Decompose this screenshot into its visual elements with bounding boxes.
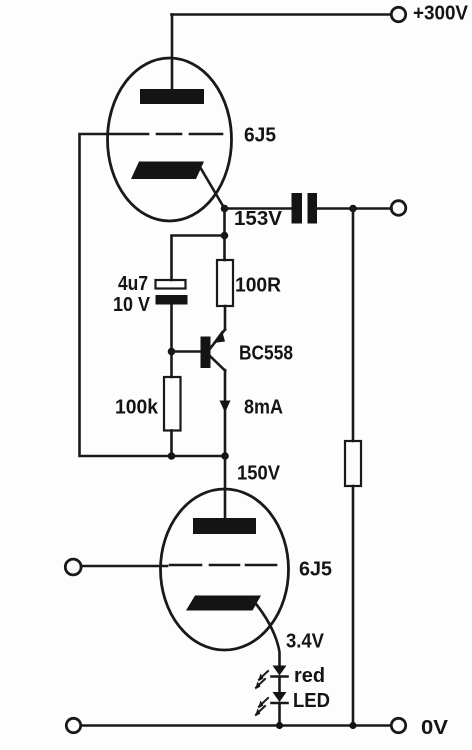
V2 grid dashed line [170,564,276,567]
svg-text:3.4V: 3.4V [286,631,325,653]
svg-text:100k: 100k [115,397,159,419]
wire LED2 to 0V rail [278,703,281,726]
svg-text:100R: 100R [235,275,282,297]
node cap tap junction [221,232,229,240]
node 153V junction [221,205,229,213]
V1 anode plate [140,89,204,104]
capacitor 4u7 plate bottom [156,295,188,305]
wire 153V node down to 100R [223,209,226,261]
node 150V right junction [221,452,229,460]
arrow 8mA current [220,401,231,413]
node base junction [168,348,176,356]
wire anode V1 to rail [171,15,174,91]
tube V2 envelope [161,489,289,650]
wire cap to output [317,207,392,210]
node bleed to rail junction [349,722,356,729]
V1 grid dashed line [115,133,222,136]
wire LED1 to LED2 [278,677,281,693]
terminal output [391,201,406,216]
wire base [172,350,202,353]
wire collector to 150V node [224,370,227,456]
svg-text:150V: 150V [237,463,281,485]
wire node to coupling cap [225,207,293,210]
svg-text:4u7: 4u7 [118,273,148,295]
wire 0V rail [81,724,391,727]
wire top supply rail [172,13,392,16]
wire 100k to 150V rail [170,431,173,457]
wire grid feedback (V1 grid to 150V rail) [80,134,172,456]
terminal +300V [391,7,405,21]
svg-text:6J5: 6J5 [299,559,332,581]
transistor Q1 emitter lead with arrow [211,330,226,349]
wire bleed resistor to 0V rail [352,486,355,726]
node LED to rail junction [276,722,283,729]
resistor bleed (right) [345,441,361,486]
wire V2 cathode lead [252,599,280,665]
resistor 100R [217,260,233,306]
V1 cathode plate [131,162,204,180]
svg-text:red: red [294,665,325,687]
node 150V left junction [168,452,176,460]
wire 4u7 to 100k [170,305,173,378]
terminal input [65,559,81,575]
terminal input ground [66,718,80,732]
V2 cathode plate [186,596,261,611]
V2 anode plate [193,518,256,534]
resistor 100k [164,377,181,431]
svg-text:BC558: BC558 [239,343,293,365]
wire input to grid [81,565,167,568]
capacitor 4u7 plate top [156,280,186,289]
svg-text:153V: 153V [234,208,283,230]
wire 150V node to V2 anode [224,456,227,519]
wire 150V rail [172,455,226,458]
wire tap to 4u7 branch [172,236,225,281]
svg-text:8mA: 8mA [244,397,283,419]
svg-text:10 V: 10 V [113,294,151,316]
diode LED2 [255,692,288,717]
tube V1 envelope [108,58,232,221]
wire output node down to bleed resistor [352,209,355,442]
diode LED1 [255,666,288,690]
transistor Q1 BC558 base bar [201,337,211,369]
svg-text:LED: LED [293,690,330,712]
capacitor C out (coupling) [292,193,318,224]
node output junction [349,205,357,213]
svg-text:6J5: 6J5 [244,125,276,147]
transistor Q1 collector lead [211,357,226,371]
wire 100R to emitter [224,306,227,330]
svg-text:0V: 0V [421,717,449,739]
svg-text:+300V: +300V [413,3,469,25]
wire V1 cathode lead [200,167,225,209]
terminal 0V [391,718,405,732]
